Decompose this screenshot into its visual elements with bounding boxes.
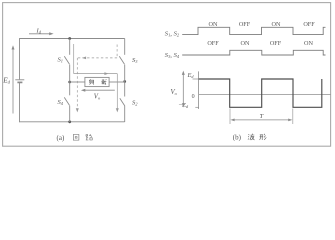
svg-text:0: 0	[192, 94, 195, 100]
switch S4 blade	[64, 97, 69, 105]
svg-text:ON: ON	[304, 40, 313, 47]
svg-text:Id: Id	[36, 28, 42, 35]
wire: left rail lower (battery to bottom bus)	[19, 82, 21, 122]
svg-text:Ed: Ed	[187, 72, 195, 79]
arrow: Id current arrow on top bus	[29, 32, 54, 35]
axis: zero line	[199, 94, 331, 96]
battery Ed long plate	[15, 79, 24, 81]
arrow: Vo amplitude double arrow	[182, 71, 185, 108]
axis: Vo vertical axis	[198, 71, 200, 109]
load text 负	[89, 79, 94, 84]
node: left leg midpoint	[68, 81, 71, 84]
arrow: Vo voltage arrow (points left, under load)	[81, 89, 115, 92]
outer border frame	[3, 3, 331, 147]
node: right leg midpoint	[123, 80, 126, 83]
arrow: Ed polarity arrow (up)	[12, 45, 15, 113]
load text 载	[101, 79, 106, 85]
node: top bus / left leg junction	[68, 37, 71, 40]
axis: minus Ed tick	[195, 106, 198, 108]
svg-text:ON: ON	[241, 40, 250, 47]
svg-text:S4: S4	[58, 99, 64, 106]
wire: left rail upper (to battery)	[19, 38, 21, 79]
waveform: gate signal S3,S4	[182, 50, 325, 55]
wire: load left connection	[70, 81, 85, 83]
svg-text:S3, S4: S3, S4	[165, 52, 180, 59]
svg-text:S1, S2: S1, S2	[165, 30, 180, 37]
svg-text:(a): (a)	[57, 134, 65, 142]
svg-text:T: T	[260, 113, 265, 120]
wire: dashed current path horizontal with left arrowhead	[77, 57, 117, 60]
svg-text:OFF: OFF	[207, 40, 219, 47]
wire: solid current path S1-load-S2, left vertical	[73, 44, 75, 74]
wire: right leg lower segment	[124, 106, 126, 123]
switch S1 blade	[64, 56, 69, 64]
svg-text:S3: S3	[132, 57, 138, 64]
svg-text:ON: ON	[209, 21, 218, 28]
node: bottom bus / left leg junction	[68, 120, 71, 123]
switch S3 blade	[119, 56, 124, 64]
load box	[85, 77, 109, 86]
switch S2 blade	[120, 98, 125, 105]
arrow: period T double arrow	[230, 119, 292, 122]
wire: right leg middle segment	[124, 65, 126, 97]
svg-text:ON: ON	[272, 21, 281, 28]
wire: left leg middle segment	[69, 65, 71, 96]
tick: period left	[229, 109, 231, 125]
wire: left leg lower segment	[69, 106, 71, 122]
caption char 路	[86, 134, 92, 140]
wire: left leg upper segment	[69, 39, 71, 55]
wire: solid current path right vertical with down arrowhead	[116, 74, 119, 113]
axis: Ed tick	[193, 78, 199, 80]
wire: dashed current path left vertical with down arrowhead	[76, 58, 79, 113]
wire: solid current path horizontal with right arrowhead	[74, 72, 118, 75]
wire: right leg upper segment	[124, 39, 126, 55]
tick: period right	[292, 109, 294, 125]
caption char 回	[73, 135, 79, 141]
waveform: gate signal S1,S2	[182, 27, 325, 34]
svg-text:OFF: OFF	[303, 21, 315, 28]
waveform: output voltage square wave	[199, 79, 322, 107]
svg-text:Vo: Vo	[171, 89, 178, 96]
wire: bottom bus	[20, 121, 125, 123]
svg-text:OFF: OFF	[239, 21, 251, 28]
svg-text:Vo: Vo	[94, 93, 101, 100]
svg-text:S2: S2	[132, 100, 138, 107]
wire: top bus from battery to right leg	[20, 38, 125, 40]
svg-text:(b): (b)	[233, 133, 242, 141]
caption char 波	[248, 134, 255, 140]
caption char 形	[260, 134, 267, 140]
wire: dashed current path S3-load-S4, right vertical top	[116, 45, 118, 58]
battery Ed short plate	[17, 81, 22, 83]
wire: load right connection	[109, 81, 125, 83]
svg-text:S1: S1	[58, 57, 64, 64]
svg-text:OFF: OFF	[270, 40, 282, 47]
svg-text:Ed: Ed	[2, 77, 10, 85]
